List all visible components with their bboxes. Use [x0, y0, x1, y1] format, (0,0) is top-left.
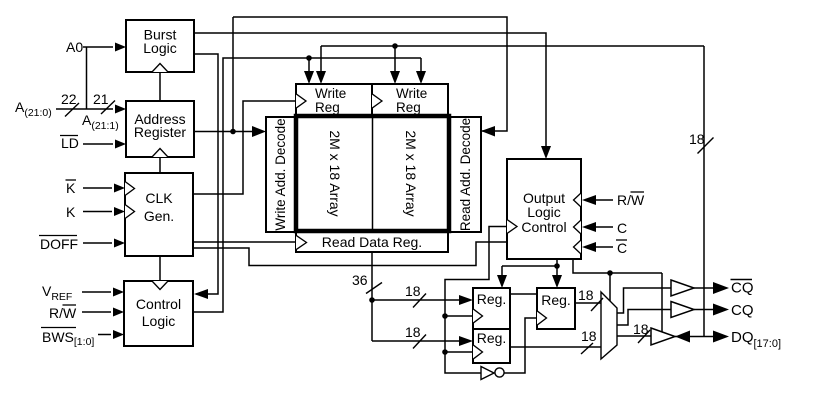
svg-text:Write: Write	[315, 86, 346, 101]
reg1 box	[473, 288, 510, 329]
wire clk gen out y248 staircase to output logic control	[193, 242, 507, 266]
wire K input	[83, 211, 112, 213]
clk gen box	[125, 173, 193, 256]
svg-text:CQ: CQ	[731, 280, 754, 297]
arrow DOFF into clk gen	[114, 239, 125, 248]
boxes	[124, 20, 581, 363]
pin reg3 clock triangle	[537, 311, 547, 325]
svg-text:LD: LD	[61, 135, 79, 151]
control logic box	[124, 281, 193, 346]
arrow 18 into reg2	[459, 336, 473, 346]
svg-text:Gen.: Gen.	[144, 208, 174, 224]
wire mux select drop x610	[609, 273, 611, 301]
slash 18 to reg1	[413, 294, 426, 308]
wire olc bottom stub to reg clock line y266	[556, 259, 558, 266]
wire burst logic clock to address register top	[159, 72, 161, 101]
svg-text:2M x 18 Array: 2M x 18 Array	[327, 130, 343, 216]
write add decode box	[266, 117, 295, 232]
arrow into read add decode from right	[481, 126, 495, 137]
wire clk gen bottom to control logic clock	[159, 256, 161, 281]
wire reg1 clock drop x502	[501, 266, 503, 276]
slash 18 mux to dq buffer	[638, 330, 650, 343]
wire DOFF input	[83, 242, 112, 244]
write reg2 box	[372, 84, 448, 117]
slash 36 bus	[366, 283, 382, 294]
svg-text:R/W: R/W	[49, 305, 77, 321]
arrow dq input leftwards	[675, 331, 690, 343]
wire burst logic out2 y54 down x218 into control logic	[194, 54, 218, 294]
wire C bar input to olc	[596, 246, 613, 248]
arrow A0 into burst logic	[115, 43, 126, 52]
svg-text:CLK: CLK	[145, 190, 173, 206]
arrow BWS into control logic	[113, 330, 124, 339]
wire VREF input	[82, 291, 111, 293]
wire mux stub1 to cq-bar buffer	[617, 288, 671, 313]
wire 18 bus to reg1	[372, 299, 460, 301]
svg-text:Read Add. Decode: Read Add. Decode	[458, 118, 473, 231]
bus width slashes	[65, 101, 714, 355]
svg-text:K: K	[66, 204, 76, 220]
wire write reg2 drop x421	[420, 58, 422, 71]
svg-text:Write: Write	[396, 86, 427, 101]
node junction on y46 at x395	[392, 43, 398, 49]
arrow LD into address register	[115, 140, 126, 149]
pin reg2 clock triangle	[473, 345, 483, 359]
pin write reg2 clock triangle	[372, 94, 382, 108]
wire address register riser x233	[232, 17, 234, 132]
svg-text:18: 18	[689, 131, 705, 147]
arrow down into write reg2 left	[390, 71, 400, 84]
arrow K into clk gen	[114, 207, 125, 216]
arrow cq output	[713, 304, 729, 316]
address register box	[126, 101, 194, 157]
arrow dq output	[713, 331, 729, 343]
pin olc C bar clock triangle	[574, 240, 582, 254]
pin write reg1 clock triangle	[296, 94, 306, 108]
node junction address register output x233	[230, 129, 236, 135]
node junction reg1 clock x445	[442, 313, 448, 319]
slash 21 bus	[101, 101, 115, 115]
pin clk gen K bar clock triangle	[125, 182, 135, 196]
svg-text:36: 36	[352, 272, 368, 288]
wire DQ input riser x704	[703, 46, 705, 336]
node junction reg2 clock x445	[442, 349, 448, 355]
arrow VREF into control logic	[113, 288, 124, 297]
wire address register clock to clk gen top	[159, 157, 161, 173]
pin olc R/W clock triangle	[574, 193, 582, 207]
read data reg box	[296, 231, 448, 252]
wire R/W input	[82, 311, 111, 313]
wire cq buffer output	[694, 309, 713, 311]
svg-text:18: 18	[405, 283, 421, 299]
svg-text:CQ: CQ	[731, 302, 754, 319]
burst logic box U1	[126, 20, 194, 72]
svg-text:K: K	[66, 180, 76, 196]
wire dq buffer output	[675, 336, 713, 338]
arrow R/W into olc	[582, 195, 596, 205]
svg-text:Reg.: Reg.	[541, 292, 571, 308]
wire 18 bus to reg2	[372, 340, 460, 342]
wire clk gen out y194 to write reg clock	[193, 101, 296, 194]
svg-text:Logic: Logic	[142, 313, 175, 329]
svg-text:Control: Control	[136, 296, 181, 312]
svg-text:Reg: Reg	[396, 100, 421, 115]
output logic control box	[507, 159, 581, 259]
pin olc C clock triangle	[574, 220, 582, 234]
pin read data reg clock triangle	[296, 235, 307, 249]
wire reg2 clock branch	[445, 351, 473, 353]
wire A0 riser x86.5	[86, 47, 88, 109]
wire C input to olc	[596, 226, 613, 228]
wire K bar input	[83, 187, 112, 189]
arrow R/W into control logic	[113, 308, 124, 317]
svg-text:18: 18	[581, 328, 597, 344]
wire LD input	[83, 143, 113, 145]
pin control logic top chevron	[152, 281, 168, 290]
node junction read bus x372 y300	[369, 297, 375, 303]
solid arrowheads	[113, 43, 729, 347]
mux trapezoid	[601, 292, 617, 359]
cq output buffer	[671, 302, 694, 318]
svg-text:DOFF: DOFF	[40, 236, 78, 252]
memory array divider	[372, 118, 374, 229]
arrow C into olc	[582, 222, 596, 232]
slash 18 reg2 to mux	[581, 343, 593, 354]
svg-text:18: 18	[405, 324, 421, 340]
wire mux output to dq buffer	[617, 335, 651, 337]
wire reg1 clock branch	[445, 315, 473, 317]
wire read add decode feed from x507	[482, 130, 495, 132]
wire A0 input	[83, 46, 113, 48]
arrow down into reg3 top	[552, 275, 562, 288]
memory array outer thick box	[296, 116, 449, 231]
svg-text:Logic: Logic	[527, 204, 560, 220]
svg-text:Logic: Logic	[143, 40, 176, 56]
arrow cq-bar output	[713, 282, 729, 294]
svg-text:2M x 18 Array: 2M x 18 Array	[403, 130, 419, 216]
read add decode box	[450, 117, 481, 232]
arrow address register output into write add decode	[252, 126, 266, 137]
cq-bar output buffer	[671, 280, 694, 296]
svg-text:C: C	[617, 240, 627, 256]
arrow down into write reg1 right	[316, 71, 326, 84]
svg-text:Reg.: Reg.	[477, 291, 507, 307]
arrow 18 into reg1	[459, 295, 473, 305]
slash 18 to reg2	[413, 335, 426, 349]
wire inverter output to reg3 clock	[503, 318, 537, 373]
wire R/W input to olc	[596, 199, 613, 201]
wire reg clock line y266	[502, 265, 557, 267]
wires for olc right inputs	[596, 200, 613, 247]
node junction olc clock stub x557	[554, 263, 560, 269]
inverter U2	[481, 367, 504, 380]
arrow down into write reg1 left	[304, 71, 314, 84]
arrow down into write reg2 right	[416, 71, 426, 84]
slash 22 bus	[65, 103, 79, 117]
write reg1 box	[296, 84, 372, 117]
wire clk gen out y242 to read data reg clock	[193, 241, 296, 243]
svg-text:21: 21	[93, 91, 109, 107]
pin olc left clock triangle	[507, 220, 517, 234]
pin clk gen K clock triangle	[125, 205, 135, 219]
wire dq buffer enable drop x662	[661, 273, 663, 333]
wire mux stub2 to cq buffer	[617, 310, 671, 326]
reg2 box	[473, 329, 510, 363]
arrow into control logic right side	[194, 289, 208, 299]
svg-text:Reg: Reg	[315, 100, 340, 115]
svg-text:R/W: R/W	[617, 192, 645, 208]
wire burst logic out1 y33 to output logic control	[194, 33, 546, 146]
svg-text:Write Add. Decode: Write Add. Decode	[273, 118, 288, 230]
wire reg2 output to mux	[510, 346, 601, 348]
pin reg1 clock triangle	[473, 309, 483, 323]
svg-text:Control: Control	[521, 219, 566, 235]
wire output logic control clock feed staircase	[445, 227, 507, 374]
wire top feedback y17 from address register riser to read add decode	[233, 17, 507, 131]
arrow C bar into olc	[582, 242, 596, 252]
svg-text:Register: Register	[134, 124, 186, 140]
svg-text:Read Data Reg.: Read Data Reg.	[322, 234, 422, 250]
slash 18 reg3 to mux	[591, 298, 603, 311]
arrow K bar into clk gen	[114, 184, 125, 193]
wire read data reg output bus x372	[371, 252, 373, 341]
slash 18 top right bus	[698, 138, 714, 154]
wire cq-bar buffer output	[694, 287, 713, 289]
clock input open triangles	[125, 64, 581, 360]
wire reg1 output to reg3	[510, 293, 537, 295]
wire control logic out y312 up x223 along y58	[193, 58, 421, 312]
wire write data bus y46 from DQ riser to write regs	[321, 45, 704, 47]
pin address register bottom chevron	[152, 149, 168, 158]
wire reg3 output to mux	[575, 302, 601, 304]
wire A(21:0) bus input	[56, 108, 113, 110]
wire write reg2 data drop x395	[394, 46, 396, 71]
wire address register output to write add decode	[194, 131, 253, 133]
svg-text:22: 22	[61, 91, 77, 107]
svg-text:A0: A0	[66, 39, 83, 55]
node junction on y58 at x309	[306, 55, 312, 61]
wire reg3 clock drop x557	[556, 266, 558, 276]
arrow down into reg1 top	[497, 275, 507, 288]
wire write reg1 drop x309	[308, 58, 310, 71]
svg-text:Reg.: Reg.	[477, 330, 507, 346]
svg-text:18: 18	[633, 321, 649, 337]
arrow down into output logic control top	[541, 146, 551, 159]
svg-text:18: 18	[578, 287, 594, 303]
arrow A(21:1) into address register	[115, 105, 126, 114]
svg-text:C: C	[617, 220, 627, 236]
wire olc bottom stub2 to y273	[573, 259, 662, 273]
pin burst logic bottom chevron	[152, 64, 168, 73]
node junction mux select x610	[607, 270, 613, 276]
dq output buffer	[651, 328, 675, 345]
wire write reg1 data drop x321	[320, 46, 322, 71]
wire BWS input	[98, 334, 111, 336]
reg3 box	[537, 288, 575, 329]
